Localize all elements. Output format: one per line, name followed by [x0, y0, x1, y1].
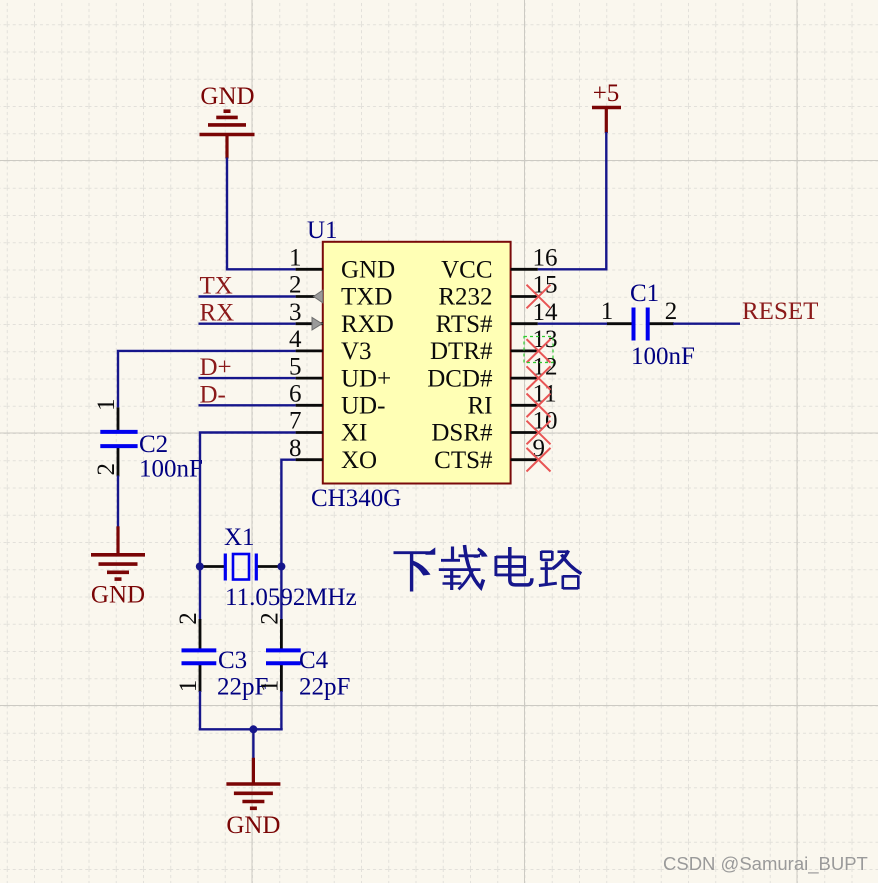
- svg-text:RXD: RXD: [341, 311, 394, 338]
- svg-text:DTR#: DTR#: [430, 338, 493, 365]
- wire bottom rail: [199, 728, 283, 730]
- wire pin 7 (XI) down left crystal branch: [200, 433, 296, 567]
- power +5 symbol: [592, 80, 621, 133]
- node RX (net label): [200, 300, 235, 327]
- svg-text:CH340G: CH340G: [311, 485, 401, 512]
- pin 10 (DSR#): [431, 408, 557, 447]
- svg-text:UD+: UD+: [341, 365, 391, 392]
- svg-text:2: 2: [257, 612, 284, 625]
- svg-text:XO: XO: [341, 447, 377, 474]
- svg-text:RX: RX: [200, 300, 235, 327]
- wire C1 to RESET: [673, 323, 740, 325]
- wire right branch to C4: [280, 567, 282, 621]
- pin 5 (UD+): [289, 353, 391, 392]
- ground GND (below C2): [91, 526, 145, 608]
- svg-text:C3: C3: [218, 647, 247, 674]
- svg-text:V3: V3: [341, 338, 372, 365]
- svg-text:XI: XI: [341, 420, 367, 447]
- svg-text:1: 1: [601, 298, 614, 325]
- node TX (net label): [200, 273, 233, 300]
- no-ERC cross on pin 13: [527, 339, 551, 363]
- no-ERC cross on pin 10: [527, 421, 551, 445]
- wire from +5 to pin 16 (VCC): [538, 132, 607, 269]
- pin 3 (RXD): [289, 299, 394, 338]
- svg-text:16: 16: [533, 245, 558, 272]
- svg-text:2: 2: [665, 298, 678, 325]
- ground GND (bottom): [226, 758, 280, 839]
- svg-text:100nF: 100nF: [139, 456, 203, 483]
- pin 13 (DTR#): [430, 326, 558, 365]
- svg-text:100nF: 100nF: [631, 343, 695, 370]
- node junction right of X1: [277, 563, 285, 571]
- svg-text:1: 1: [175, 680, 202, 693]
- node junction bottom rail: [249, 725, 257, 733]
- svg-text:2: 2: [93, 463, 120, 476]
- wire C4 to bottom rail: [280, 691, 282, 729]
- watermark text: [663, 853, 868, 875]
- wire net D- to pin: [199, 404, 296, 406]
- svg-text:UD-: UD-: [341, 393, 385, 420]
- svg-text:GND: GND: [341, 257, 395, 284]
- svg-text:GND: GND: [200, 83, 254, 110]
- svg-text:1: 1: [93, 398, 120, 411]
- svg-text:RI: RI: [468, 393, 493, 420]
- svg-text:TXD: TXD: [341, 284, 392, 311]
- capacitor C1 100nF: [601, 280, 695, 370]
- svg-text:C1: C1: [630, 280, 659, 307]
- svg-text:5: 5: [289, 353, 302, 380]
- svg-text:9: 9: [533, 435, 546, 462]
- pin 11 (RI): [468, 381, 557, 420]
- svg-text:C2: C2: [139, 431, 168, 458]
- svg-text:+5: +5: [593, 80, 620, 107]
- pin 6 (UD-): [289, 381, 385, 420]
- ground GND (top left power symbol): [200, 83, 255, 159]
- capacitor C3 22pF: [175, 612, 268, 700]
- 下载电路 title (hand-drawn glyphs): [394, 545, 582, 592]
- pin 2 (TXD): [289, 272, 392, 311]
- svg-text:11.0592MHz: 11.0592MHz: [225, 584, 357, 611]
- svg-text:TX: TX: [200, 273, 233, 300]
- svg-text:VCC: VCC: [441, 257, 492, 284]
- pin 4 (V3): [289, 326, 372, 365]
- svg-text:6: 6: [289, 381, 302, 408]
- svg-text:CSDN @Samurai_BUPT: CSDN @Samurai_BUPT: [663, 853, 868, 875]
- svg-text:X1: X1: [224, 524, 255, 551]
- svg-text:CTS#: CTS#: [434, 447, 493, 474]
- svg-text:7: 7: [289, 408, 302, 435]
- svg-text:1: 1: [289, 245, 302, 272]
- pin 2 TXD output triangle: [314, 290, 323, 303]
- svg-text:GND: GND: [226, 812, 280, 839]
- svg-text:C4: C4: [299, 647, 329, 674]
- wire bottom rail to ground: [252, 729, 254, 759]
- wire pin 8 (XO) down right crystal branch: [281, 460, 295, 567]
- pin 3 RXD input triangle: [312, 317, 322, 330]
- node RESET (net label): [742, 298, 818, 325]
- no-ERC cross on pin 15: [527, 285, 551, 309]
- wire left branch to C3: [199, 567, 201, 621]
- no-ERC cross on pin 9: [527, 448, 551, 472]
- capacitor C4 22pF: [257, 612, 351, 700]
- no-ERC cross on pin 12: [527, 366, 551, 390]
- pin 1 (GND): [289, 245, 395, 284]
- svg-text:R232: R232: [438, 284, 492, 311]
- svg-text:U1: U1: [307, 217, 338, 244]
- svg-text:2: 2: [289, 272, 302, 299]
- svg-text:2: 2: [175, 612, 202, 625]
- pin 14 (RTS#): [436, 299, 558, 338]
- no-ERC cross on pin 11: [527, 394, 551, 418]
- node junction left of X1: [196, 563, 204, 571]
- pin 15 (R232): [438, 272, 557, 311]
- selection box around pin 13 cross: [524, 337, 553, 363]
- svg-text:RTS#: RTS#: [436, 311, 493, 338]
- svg-text:DSR#: DSR#: [431, 420, 493, 447]
- svg-text:DCD#: DCD#: [427, 365, 493, 392]
- svg-text:D+: D+: [200, 354, 232, 381]
- wire pin 14 to C1: [538, 323, 608, 325]
- svg-text:1: 1: [257, 680, 284, 693]
- svg-text:22pF: 22pF: [299, 674, 350, 701]
- pin 12 (DCD#): [427, 353, 557, 392]
- svg-text:GND: GND: [91, 582, 145, 609]
- pin 9 (CTS#): [434, 435, 545, 474]
- svg-text:RESET: RESET: [742, 298, 818, 325]
- wire C2 to ground: [117, 476, 119, 528]
- capacitor C2 100nF: [93, 398, 203, 482]
- pin 8 (XO): [289, 435, 377, 474]
- wire net RX to pin: [199, 323, 296, 325]
- pin 16 (VCC): [441, 245, 557, 284]
- svg-text:3: 3: [289, 299, 302, 326]
- wire pin 4 (V3) to C2: [118, 351, 296, 408]
- svg-text:D-: D-: [200, 381, 226, 408]
- node D- (net label): [200, 381, 226, 408]
- IC U1 CH340G body: [307, 217, 511, 512]
- pin 7 (XI): [289, 408, 367, 447]
- svg-text:4: 4: [289, 326, 302, 353]
- wire C3 to bottom rail: [199, 691, 201, 729]
- wire net TX to pin: [199, 295, 296, 297]
- node D+ (net label): [200, 354, 232, 381]
- svg-text:8: 8: [289, 435, 302, 462]
- wire from top GND to pin 1: [227, 158, 296, 270]
- crystal X1 11.0592MHz: [201, 524, 357, 611]
- wire net D+ to pin: [199, 377, 296, 379]
